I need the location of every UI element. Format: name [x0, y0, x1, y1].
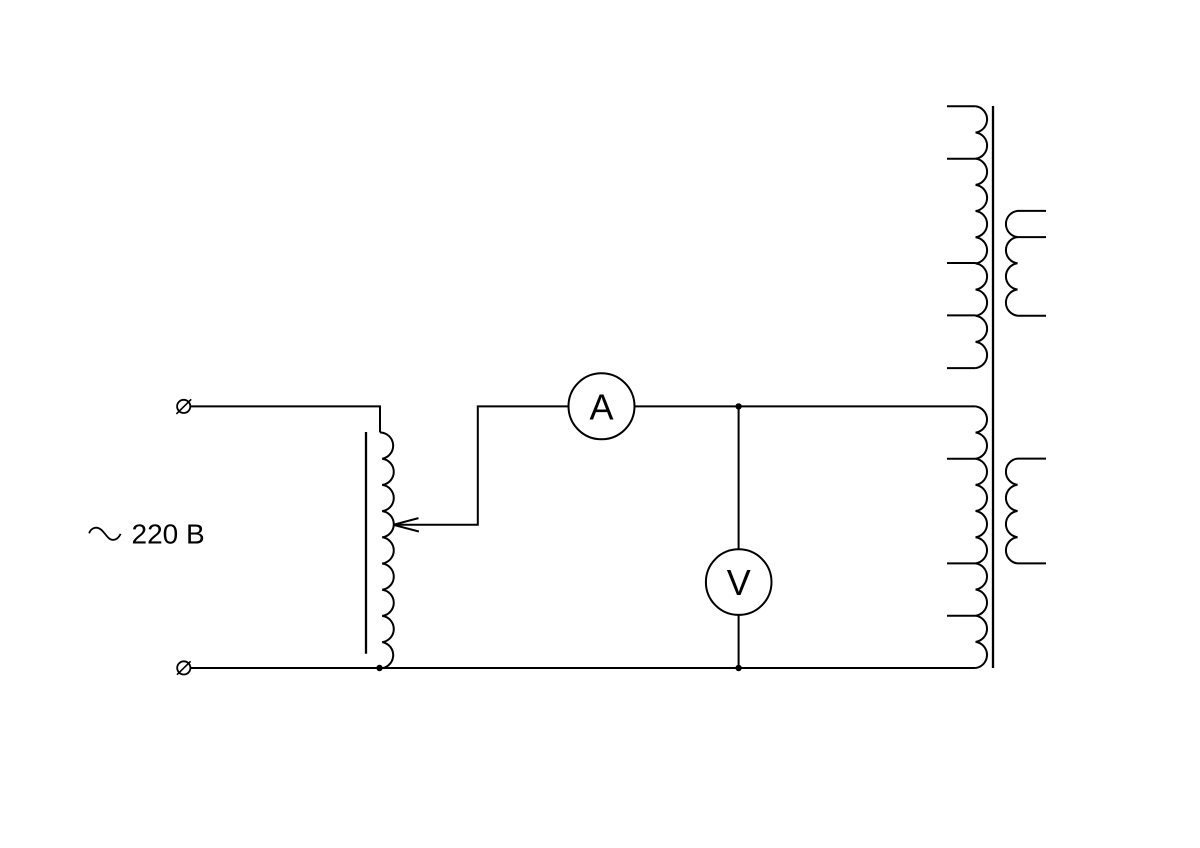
W3 lead 1 (top)	[1018, 210, 1047, 212]
terminal X1 (top input, circle with slash)	[176, 399, 191, 414]
terminal X2 (bottom input, circle with slash)	[177, 661, 191, 674]
svg-text:V: V	[727, 562, 751, 603]
W4 lead 2 (bottom)	[1018, 562, 1047, 564]
wiper arrow of autotransformer	[393, 518, 419, 531]
autotransformer T1 winding (9 loops)	[380, 432, 394, 668]
T2 winding W4 (bottom-right secondary, 4 loops)	[1006, 459, 1018, 564]
W1 tap lead 2	[947, 158, 976, 160]
junction: bottom of voltmeter branch	[735, 665, 741, 671]
W2 tap lead 2	[947, 562, 976, 564]
T2 winding W3 (top-right secondary, 4 loops)	[1006, 211, 1018, 316]
svg-text:220 В: 220 В	[132, 518, 205, 549]
T2 winding W1 (top-left, tapped, 10 loops)	[976, 106, 987, 368]
W2 tap lead 3	[947, 615, 976, 617]
svg-text:A: A	[589, 386, 613, 427]
W1 tap lead 4	[947, 314, 976, 316]
autotransformer T1 core bar	[365, 432, 367, 654]
W3 lead 2 (tap after first loop)	[1018, 236, 1047, 238]
wire: top terminal to autotransformer top	[190, 406, 380, 432]
junction: autotransformer bottom on bottom rail	[376, 665, 382, 671]
transformer T2 core bar	[992, 106, 994, 668]
wire: voltmeter down to bottom rail	[738, 615, 740, 668]
W1 tap lead 3	[947, 262, 976, 264]
W1 tap lead 5 (bottom)	[947, 367, 976, 369]
T2 winding W2 (bottom-left, primary, 10 loops)	[976, 406, 987, 668]
wire: wiper to ammeter (shaft right, up, right)	[393, 406, 568, 524]
W1 tap lead 1 (top)	[947, 105, 976, 107]
junction: top of voltmeter branch	[735, 403, 741, 409]
W2 tap lead 1	[947, 458, 976, 460]
ammeter PA1	[569, 373, 635, 439]
wire: ammeter to transformer primary top	[635, 405, 976, 407]
wire: bottom rail, terminal X2 to transformer primary bottom	[190, 667, 975, 669]
W3 lead 3 (bottom)	[1018, 315, 1047, 317]
W4 lead 1 (top)	[1018, 458, 1047, 460]
wire: junction down to voltmeter	[738, 406, 740, 549]
AC source label: sine symbol	[89, 528, 121, 540]
voltmeter PV1	[706, 549, 772, 615]
